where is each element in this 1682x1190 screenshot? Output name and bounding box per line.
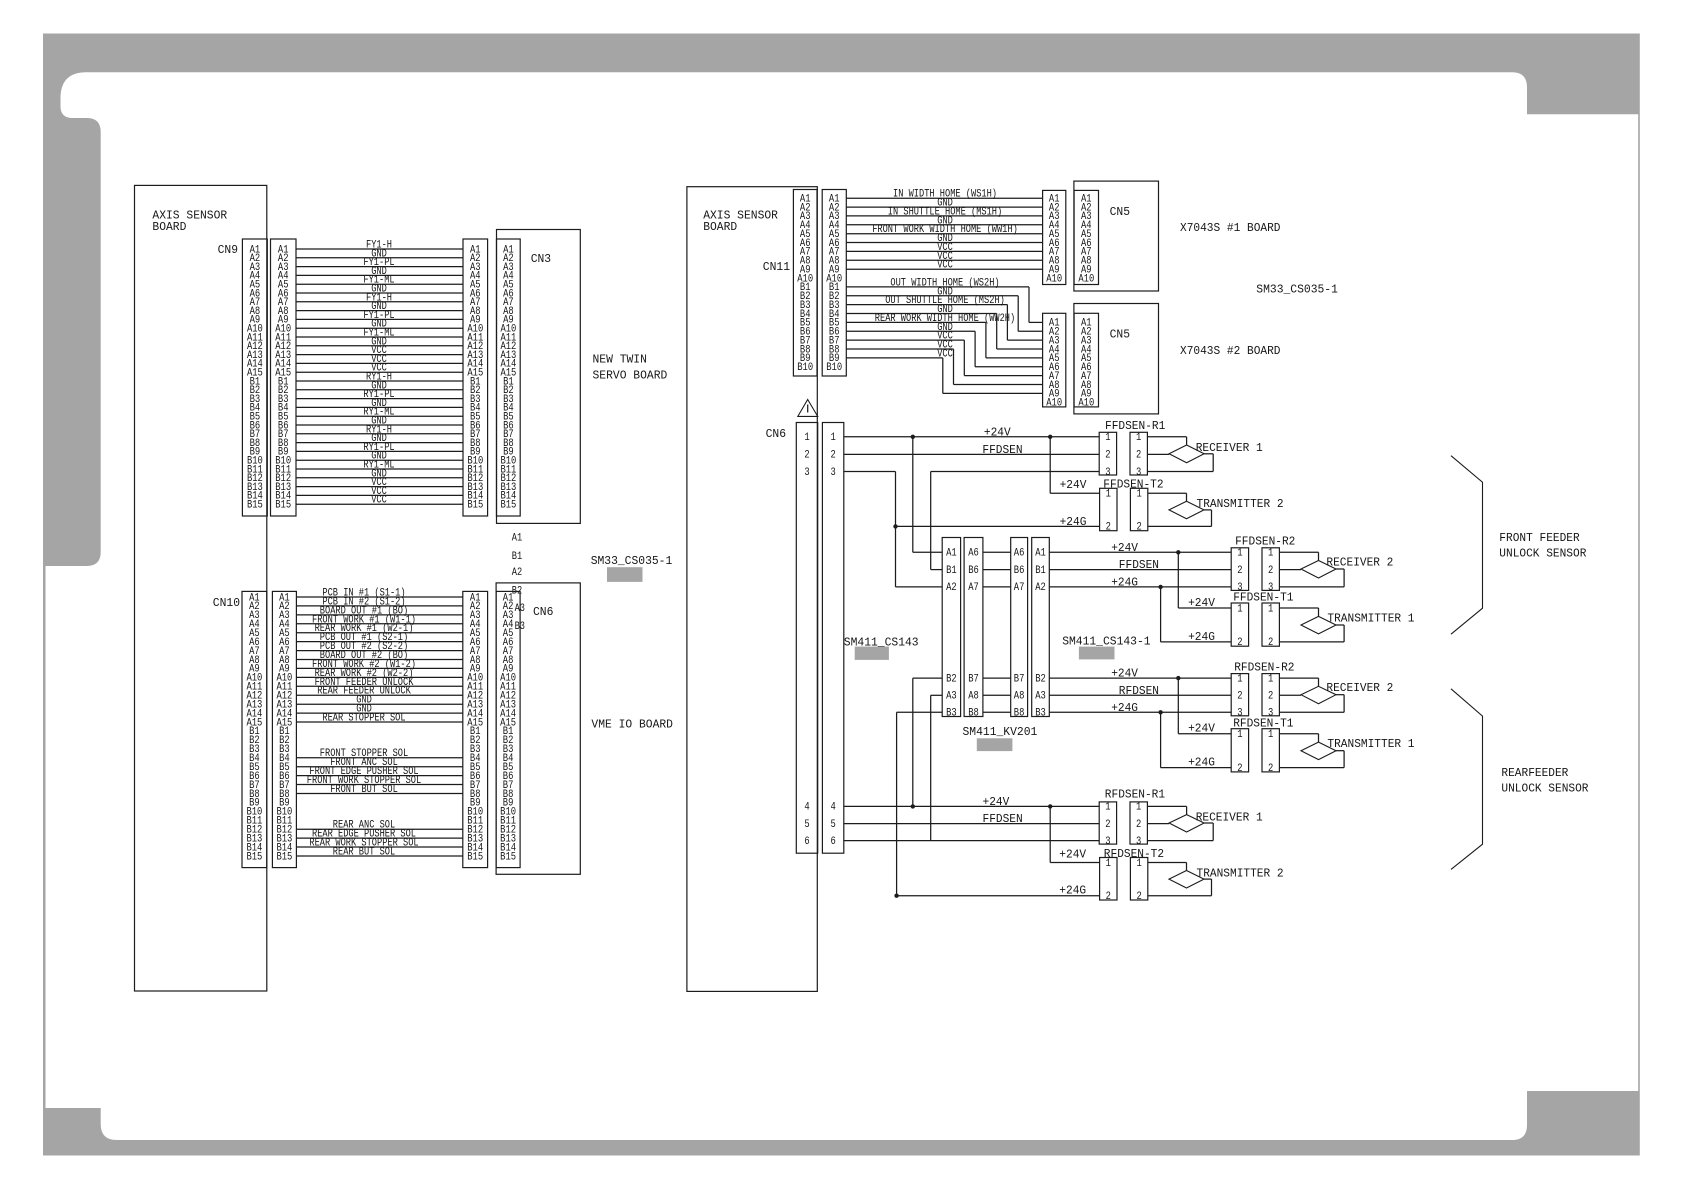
connector CN3 pin column (board side) <box>497 239 521 516</box>
connector CN9 pin column (board side) <box>242 239 267 516</box>
wire CN11 B4 net GND to X7043S#2 A4 <box>846 304 1042 349</box>
svg-text:REAR BUT SOL: REAR BUT SOL <box>333 847 395 859</box>
wire CN9 A10 net GND <box>296 319 463 331</box>
wire CN9 A4 net GND <box>296 266 463 278</box>
svg-text:4: 4 <box>830 802 836 814</box>
wire TRANSMITTER 2 right loop to FFDSEN-T2 pin2 <box>1148 510 1212 527</box>
wire CN11 B2 net GND to X7043S#2 A2 <box>846 286 1042 331</box>
svg-text:+24V: +24V <box>984 426 1011 439</box>
brace FRONT FEEDER UNLOCK SENSOR <box>1451 456 1586 635</box>
board X7043S #2 BOARD (CN5) <box>1074 304 1281 414</box>
svg-text:1: 1 <box>1268 729 1274 741</box>
svg-text:+24V: +24V <box>1059 848 1086 861</box>
wire RFDSEN-R2 pin1 to RECEIVER 2 top <box>1279 678 1318 686</box>
svg-text:+24G: +24G <box>1111 702 1138 715</box>
svg-text:+24V: +24V <box>1188 723 1215 736</box>
svg-text:1: 1 <box>1106 489 1112 501</box>
wire CN9 A9 net FY1-PL <box>296 310 463 322</box>
RECEIVER 1 diamond <box>1169 442 1263 463</box>
wire CN9 B10 net GND <box>296 451 463 463</box>
svg-text:A10: A10 <box>1046 273 1062 285</box>
svg-text:A6: A6 <box>1014 548 1025 560</box>
svg-text:CN6: CN6 <box>766 427 786 441</box>
wire CN9 B8 net GND <box>296 433 463 445</box>
wire CN9 A3 net FY1-PL <box>296 257 463 269</box>
wire CN9 B12 net GND <box>296 468 463 480</box>
svg-text:2: 2 <box>804 450 809 462</box>
wire CN10 B14 net REAR WORK STOPPER SOL <box>296 838 462 850</box>
connector CN5 #1 pin column (cable side) <box>1043 190 1066 285</box>
wire +24V drop to FFDSEN-T1 pin1 <box>1178 552 1231 610</box>
wire CN10 B15 net REAR BUT SOL <box>296 847 462 859</box>
svg-text:CN9: CN9 <box>218 243 238 257</box>
SM411_CS143 connector column 2 <box>964 538 983 720</box>
wire CN11 A4 net GND <box>846 215 1042 227</box>
harness label SM411_CS143 <box>844 636 919 660</box>
RECEIVER 2 diamond <box>1301 556 1393 578</box>
wire +24V col4 B2 to RFDSEN-R2 pin1 <box>1049 668 1231 681</box>
svg-text:UNLOCK SENSOR: UNLOCK SENSOR <box>1499 548 1586 561</box>
svg-text:1: 1 <box>1136 858 1142 870</box>
wire CN9 B2 net GND <box>296 380 463 392</box>
svg-text:B1: B1 <box>512 551 523 563</box>
wire FFDSEN-T2 pin1 to TRANSMITTER 2 top <box>1148 493 1187 501</box>
board AXIS SENSOR BOARD (right) <box>687 187 817 992</box>
wire CN9 B1 net RY1-H <box>296 372 463 384</box>
wire CN10 A5 net REAR WORK #1 (W2-1) <box>296 623 462 635</box>
wire CN10 A15 net REAR STOPPER SOL <box>296 713 462 725</box>
svg-text:6: 6 <box>830 836 835 848</box>
wire link A7 between connector pairs <box>983 586 1011 588</box>
svg-text:1: 1 <box>1105 802 1111 814</box>
svg-text:2: 2 <box>1136 522 1141 534</box>
wire CN9 A6 net GND <box>296 284 463 296</box>
svg-text:VME IO BOARD: VME IO BOARD <box>591 718 673 732</box>
wire +24V CN6 pin1 to FFDSEN-R1 pin1 <box>844 426 1099 439</box>
svg-text:1: 1 <box>1136 432 1142 444</box>
svg-text:+24V: +24V <box>1111 542 1138 555</box>
wire CN9 B9 net RY1-PL <box>296 442 463 454</box>
svg-text:FFDSEN-T2: FFDSEN-T2 <box>1103 479 1163 492</box>
svg-text:B15: B15 <box>276 851 292 863</box>
junction +24G corner dot <box>894 894 898 898</box>
svg-text:FFDSEN-R2: FFDSEN-R2 <box>1235 535 1295 548</box>
svg-text:RFDSEN-R1: RFDSEN-R1 <box>1105 789 1165 802</box>
svg-text:4: 4 <box>804 802 810 814</box>
TRANSMITTER 1 diamond <box>1301 612 1415 634</box>
svg-text:A10: A10 <box>1078 398 1094 410</box>
wire FFDSEN-R1 pin3 to col B1 <box>931 472 1099 570</box>
svg-text:TRANSMITTER 1: TRANSMITTER 1 <box>1327 612 1414 625</box>
svg-text:RECEIVER 2: RECEIVER 2 <box>1326 556 1393 569</box>
wire +24V CN6 pin4 to RFDSEN-R1 pin1 <box>844 796 1099 809</box>
junction +24V / col A1 <box>911 435 915 439</box>
svg-text:2: 2 <box>1268 565 1273 577</box>
svg-text:6: 6 <box>804 836 809 848</box>
svg-text:SERVO BOARD: SERVO BOARD <box>593 368 668 382</box>
wire CN10 A10 net REAR WORK #2 (W2-2) <box>296 668 462 680</box>
wire CN10 A13 net GND <box>296 695 462 707</box>
wire CN11 B9 net VCC to X7043S#2 A9 <box>846 348 1042 393</box>
wire CN9 A14 net VCC <box>296 354 463 366</box>
svg-text:+24V: +24V <box>1188 597 1215 610</box>
svg-text:A7: A7 <box>1014 582 1025 594</box>
svg-text:A8: A8 <box>968 691 979 703</box>
svg-text:2: 2 <box>1268 691 1273 703</box>
connector CN6 (VME) pin column (cable side) <box>463 591 488 867</box>
wire CN11 B1 net OUT WIDTH HOME (WS2H) to X7043S#2 A1 <box>846 277 1042 322</box>
harness label SM33_CS035-1 (left) <box>591 554 673 582</box>
connector CN11 pin column (cable side) <box>822 190 846 377</box>
svg-text:A1: A1 <box>1035 548 1046 560</box>
svg-text:VCC: VCC <box>371 495 387 507</box>
connector CN10 pin column (board side) <box>242 591 267 867</box>
connector CN5 #2 pin column (board side) <box>1074 313 1098 409</box>
wire link B6 between connector pairs <box>983 569 1011 571</box>
board VME IO BOARD (CN6 left) <box>496 583 673 874</box>
svg-text:CN10: CN10 <box>213 596 240 610</box>
svg-text:B15: B15 <box>500 851 516 863</box>
svg-text:VCC: VCC <box>937 260 953 272</box>
wire link A8 between connector pairs <box>983 694 1011 696</box>
svg-text:B3: B3 <box>1035 708 1046 720</box>
svg-text:+24V: +24V <box>1111 668 1138 681</box>
svg-text:A6: A6 <box>968 548 979 560</box>
board X7043S #1 BOARD (CN5) <box>1074 181 1281 291</box>
wire CN11 A6 net GND <box>846 233 1042 245</box>
wire FFDSEN-R2 pin2 to RECEIVER 2 left <box>1279 569 1301 571</box>
harness label SM411_KV201 <box>963 725 1038 751</box>
svg-text:1: 1 <box>1237 673 1243 685</box>
svg-text:UNLOCK SENSOR: UNLOCK SENSOR <box>1501 782 1588 795</box>
svg-text:B2: B2 <box>1035 673 1046 685</box>
connector FFDSEN-R2 <box>1231 535 1295 594</box>
wire CN11 A7 net VCC <box>846 242 1042 254</box>
wire CN10 B6 net FRONT EDGE PUSHER SOL <box>296 766 462 778</box>
board NEW TWIN SERVO BOARD (CN3) <box>497 230 668 524</box>
svg-text:A7: A7 <box>968 582 979 594</box>
wire CN10 A1 net PCB IN #1 (S1-1) <box>296 588 462 600</box>
svg-text:+24V: +24V <box>1060 479 1087 492</box>
svg-text:FRONT FEEDER: FRONT FEEDER <box>1499 532 1579 545</box>
RECEIVER 1 diamond <box>1169 811 1263 832</box>
connector CN9 pin column (cable side) <box>271 239 297 516</box>
wire RECEIVER 2 right loop to FFDSEN-R2 pin3 <box>1279 569 1344 587</box>
wire CN9 B4 net GND <box>296 398 463 410</box>
wire +24V drop to RFDSEN-T1 pin1 <box>1178 678 1231 736</box>
svg-text:3: 3 <box>830 467 835 479</box>
connector RFDSEN-T1 <box>1231 717 1293 775</box>
wire CN11 B6 net GND to X7043S#2 A6 <box>846 322 1042 367</box>
TRANSMITTER 2 diamond <box>1169 868 1284 888</box>
svg-text:5: 5 <box>804 819 809 831</box>
wire RFDSEN col4 A3 to RFDSEN-R2 pin2 <box>1049 685 1231 698</box>
svg-text:A2: A2 <box>1035 582 1046 594</box>
wire col B3 down to +24G RFDSEN-T2 pin2 <box>897 712 1100 897</box>
svg-text:2: 2 <box>1106 891 1111 903</box>
wire CN11 A8 net VCC <box>846 251 1042 263</box>
svg-text:FFDSEN: FFDSEN <box>983 813 1023 826</box>
wire +24G branch to FFDSEN-T2 pin2 <box>896 516 1100 529</box>
junction +24V / RFDSEN-T1 pin1 <box>1176 676 1180 680</box>
wire RFDSEN-T2 pin1 to TRANSMITTER 2 top <box>1148 863 1187 871</box>
wire CN9 A15 net VCC <box>296 363 463 375</box>
wire RECEIVER 1 right loop to RFDSEN-R1 pin3 <box>1147 823 1213 841</box>
wire CN11 B7 net VCC to X7043S#2 A7 <box>846 331 1042 376</box>
wire link B7 between connector pairs <box>983 677 1011 679</box>
wire CN9 B13 net VCC <box>296 477 463 489</box>
svg-text:2: 2 <box>1237 637 1242 649</box>
SM411_CS143-1 connector column 4 <box>1032 538 1050 720</box>
wire FFDSEN-R1 pin2 to RECEIVER 1 left <box>1147 453 1169 455</box>
wire CN9 A12 net GND <box>296 336 463 348</box>
svg-text:B15: B15 <box>247 500 263 512</box>
svg-text:B10: B10 <box>797 362 813 374</box>
warning triangle symbol <box>798 400 818 417</box>
svg-text:FFDSEN: FFDSEN <box>1119 559 1159 572</box>
svg-text:3: 3 <box>1105 467 1110 479</box>
wire FFDSEN-T1 pin1 to TRANSMITTER 1 top <box>1279 608 1318 616</box>
svg-text:B15: B15 <box>500 500 516 512</box>
svg-text:A1: A1 <box>512 533 523 545</box>
connector FFDSEN-T1 <box>1231 592 1293 650</box>
svg-text:1: 1 <box>1106 858 1112 870</box>
wire RFDSEN-R2 pin2 to RECEIVER 2 left <box>1279 694 1301 696</box>
wire TRANSMITTER 2 right loop to RFDSEN-T2 pin2 <box>1148 879 1212 896</box>
wire TRANSMITTER 1 right loop to RFDSEN-T1 pin2 <box>1279 751 1344 768</box>
svg-text:B7: B7 <box>1014 673 1025 685</box>
svg-text:1: 1 <box>830 432 836 444</box>
svg-text:X7043S #2 BOARD: X7043S #2 BOARD <box>1180 345 1281 358</box>
SM411_CS143 connector column 1 <box>942 538 960 720</box>
svg-text:2: 2 <box>1105 819 1110 831</box>
svg-text:REAR STOPPER SOL: REAR STOPPER SOL <box>322 713 405 725</box>
connector CN11 pin column (board side) <box>793 190 817 377</box>
svg-text:A1: A1 <box>946 548 957 560</box>
svg-text:SM411_CS143-1: SM411_CS143-1 <box>1062 634 1150 648</box>
TRANSMITTER 1 diamond <box>1301 738 1415 760</box>
wire RECEIVER 2 right loop to RFDSEN-R2 pin3 <box>1279 695 1344 713</box>
svg-text:RECEIVER 1: RECEIVER 1 <box>1196 442 1263 455</box>
junction +24V / FFDSEN-T2 pin1 <box>1048 435 1052 439</box>
svg-text:+24V: +24V <box>983 796 1010 809</box>
svg-text:VCC: VCC <box>937 348 953 360</box>
svg-text:RFDSEN-R2: RFDSEN-R2 <box>1234 661 1294 674</box>
svg-text:RFDSEN: RFDSEN <box>1119 685 1159 698</box>
svg-text:+24G: +24G <box>1111 576 1138 589</box>
connector CN5 #1 pin column (board side) <box>1074 190 1098 285</box>
svg-text:2: 2 <box>1237 763 1242 775</box>
wire CN11 A9 net VCC <box>846 260 1042 272</box>
connector CN10 pin column (cable side) <box>272 591 296 867</box>
wire CN10 B4 net FRONT STOPPER SOL <box>296 748 462 760</box>
wire CN10 A3 net BOARD OUT #1 (BO) <box>296 605 462 617</box>
wire CN9 B15 net VCC <box>296 495 463 507</box>
svg-text:2: 2 <box>1136 891 1141 903</box>
wire CN9 A11 net FY1-ML <box>296 328 463 340</box>
wire RFDSEN CN6 pin6 to RFDSEN-R1 pin3 <box>844 840 1099 842</box>
svg-text:B15: B15 <box>246 851 262 863</box>
svg-text:1: 1 <box>1136 489 1142 501</box>
connector FFDSEN-R1 <box>1099 420 1165 479</box>
svg-text:B1: B1 <box>946 565 957 577</box>
svg-text:5: 5 <box>830 819 835 831</box>
wire CN9 A8 net GND <box>296 301 463 313</box>
junction +24G / FFDSEN-T1 pin2 <box>1158 585 1162 589</box>
TRANSMITTER 2 diamond <box>1169 498 1284 519</box>
svg-text:SM33_CS035-1: SM33_CS035-1 <box>1256 282 1338 296</box>
connector CN6 (VME) pin column (board side) <box>496 591 520 867</box>
connector RFDSEN-R1 <box>1099 789 1165 848</box>
wire CN9 B14 net VCC <box>296 486 463 498</box>
svg-text:CN5: CN5 <box>1110 328 1130 342</box>
svg-text:+24G: +24G <box>1188 757 1215 770</box>
wire +24G col4 B3 to RFDSEN-R2 pin3 <box>1049 702 1231 715</box>
svg-text:1: 1 <box>1268 548 1274 560</box>
RECEIVER 2 diamond <box>1301 682 1393 704</box>
svg-text:3: 3 <box>1136 836 1141 848</box>
wire CN9 A1 net FY1-H <box>296 240 463 252</box>
svg-text:B10: B10 <box>826 362 842 374</box>
svg-text:1: 1 <box>1237 548 1243 560</box>
wire CN10 B12 net REAR ANC SOL <box>296 820 462 832</box>
svg-text:BOARD: BOARD <box>703 220 737 234</box>
svg-text:2: 2 <box>1105 450 1110 462</box>
svg-text:+24G: +24G <box>1059 884 1086 897</box>
wire CN10 A11 net FRONT FEEDER UNLOCK <box>296 677 462 689</box>
wire CN9 A7 net FY1-H <box>296 292 463 304</box>
connector RFDSEN-T2 <box>1100 848 1165 903</box>
svg-text:SM33_CS035-1: SM33_CS035-1 <box>591 554 673 568</box>
wire +24G drop to RFDSEN-T1 pin2 <box>1161 712 1232 769</box>
svg-text:2: 2 <box>1237 691 1242 703</box>
wire RFDSEN-R1 pin1 to RECEIVER 1 top <box>1147 806 1186 814</box>
svg-text:CN5: CN5 <box>1110 205 1130 219</box>
wire CN11 A5 net FRONT WORK WIDTH HOME (WW1H) <box>846 224 1042 236</box>
wire CN10 B8 net FRONT BUT SOL <box>296 784 462 796</box>
wire +24V drop to FFDSEN-T2 pin1 <box>1050 437 1099 494</box>
svg-text:TRANSMITTER 1: TRANSMITTER 1 <box>1327 738 1414 751</box>
wire CN10 A12 net REAR FEEDER UNLOCK <box>296 686 462 698</box>
svg-text:A2: A2 <box>512 567 522 579</box>
svg-text:1: 1 <box>1268 603 1274 615</box>
svg-text:2: 2 <box>1268 637 1273 649</box>
svg-text:B15: B15 <box>275 500 291 512</box>
wire link A6 between connector pairs <box>983 551 1011 553</box>
svg-text:2: 2 <box>1237 565 1242 577</box>
wire RECEIVER 1 right loop to FFDSEN-R1 pin3 <box>1147 454 1213 472</box>
svg-text:B7: B7 <box>968 673 979 685</box>
junction +24V / RFDSEN-T2 pin1 <box>1048 804 1052 808</box>
svg-text:2: 2 <box>1106 522 1111 534</box>
wire +24V drop to col A1 <box>913 437 942 553</box>
svg-text:B2: B2 <box>946 673 957 685</box>
wire CN10 A2 net PCB IN #2 (S1-2) <box>296 596 462 608</box>
wire TRANSMITTER 1 right loop to FFDSEN-T1 pin2 <box>1279 625 1344 642</box>
connector CN6 (right) pin column (board side) <box>796 423 817 854</box>
wire RFDSEN-T1 pin1 to TRANSMITTER 1 top <box>1279 734 1318 742</box>
wire CN10 A8 net BOARD OUT #2 (BO) <box>296 650 462 662</box>
svg-text:REARFEEDER: REARFEEDER <box>1501 767 1568 780</box>
wire +24V drop to RFDSEN-T2 pin1 <box>1050 806 1099 862</box>
connector FFDSEN-T2 <box>1100 479 1164 534</box>
svg-text:1: 1 <box>1105 432 1111 444</box>
svg-text:A3: A3 <box>946 691 957 703</box>
svg-text:RFDSEN-T2: RFDSEN-T2 <box>1104 848 1164 861</box>
svg-text:SM411_KV201: SM411_KV201 <box>963 725 1038 739</box>
wire CN11 B8 net VCC to X7043S#2 A8 <box>846 340 1042 385</box>
svg-text:B1: B1 <box>1035 565 1046 577</box>
wire FFDSEN col4 B1 to FFDSEN-R2 pin2 <box>1049 559 1231 572</box>
svg-text:1: 1 <box>804 432 810 444</box>
wire CN9 A2 net GND <box>296 248 463 260</box>
svg-text:CN11: CN11 <box>763 260 790 274</box>
svg-text:B8: B8 <box>1014 708 1025 720</box>
junction +24G / RFDSEN-T1 pin2 <box>1158 710 1162 714</box>
svg-text:NEW TWIN: NEW TWIN <box>593 353 647 367</box>
wire CN9 B5 net RY1-ML <box>296 407 463 419</box>
svg-text:B6: B6 <box>968 565 979 577</box>
junction +24V / FFDSEN-T1 pin1 <box>1176 550 1180 554</box>
svg-text:2: 2 <box>1268 763 1273 775</box>
svg-text:FRONT BUT SOL: FRONT BUT SOL <box>330 784 398 796</box>
connector CN5 #2 pin column (cable side) <box>1043 313 1066 409</box>
wire CN11 A1 net IN WIDTH HOME (WS1H) <box>846 189 1042 201</box>
svg-text:RECEIVER 2: RECEIVER 2 <box>1326 682 1393 695</box>
svg-text:2: 2 <box>830 450 835 462</box>
wire FFDSEN CN6 pin5 to RFDSEN-R1 pin2 <box>844 813 1099 826</box>
svg-text:CN3: CN3 <box>531 252 551 266</box>
wire CN9 B7 net RY1-H <box>296 424 463 436</box>
wire CN9 A5 net FY1-ML <box>296 275 463 287</box>
wire CN11 A3 net IN SHUTTLE HOME (MS1H) <box>846 206 1042 218</box>
svg-text:B3: B3 <box>946 708 957 720</box>
svg-text:3: 3 <box>1136 467 1141 479</box>
board AXIS SENSOR BOARD (left) <box>135 185 267 991</box>
svg-text:CN6: CN6 <box>533 605 553 619</box>
junction +24G / FFDSEN-T2 pin2 <box>893 524 897 528</box>
wire FFDSEN-R2 pin1 to RECEIVER 2 top <box>1279 552 1318 560</box>
svg-text:+24G: +24G <box>1060 516 1087 529</box>
wire CN9 B11 net RY1-ML <box>296 460 463 472</box>
wire CN9 B6 net GND <box>296 416 463 428</box>
svg-text:B8: B8 <box>968 708 979 720</box>
svg-text:1: 1 <box>1136 802 1142 814</box>
svg-text:TRANSMITTER 2: TRANSMITTER 2 <box>1197 498 1284 511</box>
brace REARFEEDER UNLOCK SENSOR <box>1451 689 1589 870</box>
svg-text:BOARD: BOARD <box>152 220 186 234</box>
wire CN10 A9 net FRONT WORK #2 (W1-2) <box>296 659 462 671</box>
svg-text:3: 3 <box>804 467 809 479</box>
junction +24V / col B2 <box>911 804 915 808</box>
wire CN11 B5 net REAR WORK WIDTH HOME (WW2H) to X7043S#2 A5 <box>846 313 1042 358</box>
SM411_CS143-1 connector column 3 <box>1011 538 1028 720</box>
wire CN10 A6 net PCB OUT #1 (S2-1) <box>296 632 462 644</box>
wire +24V riser to col B2 <box>913 678 942 806</box>
svg-text:+24G: +24G <box>1188 631 1215 644</box>
wire CN10 A14 net GND <box>296 704 462 716</box>
wire FFDSEN CN6 pin2 to FFDSEN-R1 pin2 <box>844 444 1099 457</box>
wire CN10 B13 net REAR EDGE PUSHER SOL <box>296 829 462 841</box>
wire CN10 B7 net FRONT WORK STOPPER SOL <box>296 775 462 787</box>
wire CN10 B5 net FRONT ANC SOL <box>296 757 462 769</box>
wire CN11 B3 net OUT SHUTTLE HOME (MS2H) to X7043S#2 A3 <box>846 295 1042 340</box>
wire CN11 A2 net GND <box>846 198 1042 210</box>
svg-text:A2: A2 <box>946 582 957 594</box>
svg-text:1: 1 <box>1268 673 1274 685</box>
svg-text:X7043S #1 BOARD: X7043S #1 BOARD <box>1180 222 1281 235</box>
svg-text:1: 1 <box>1237 603 1243 615</box>
